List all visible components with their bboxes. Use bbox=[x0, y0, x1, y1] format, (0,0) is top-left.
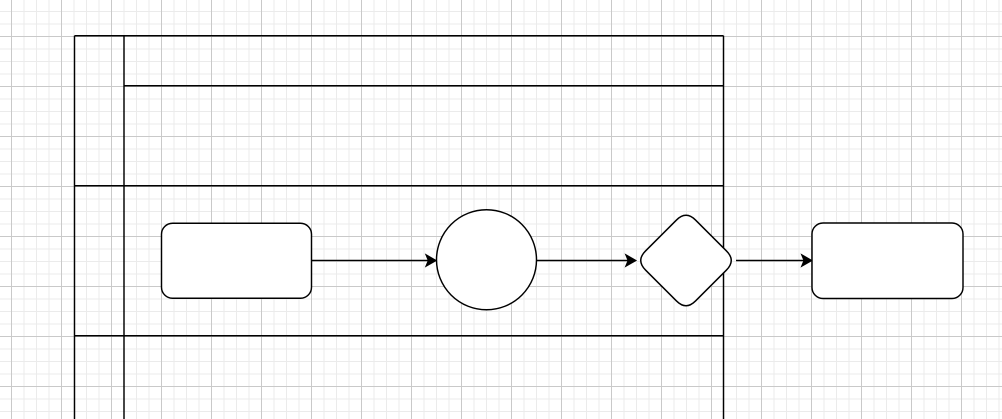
wire: arrow from diamond to task box 2 bbox=[736, 255, 812, 267]
lane boundary y=336 bbox=[75, 335, 724, 337]
pool (swimlane container) outer border bbox=[75, 36, 724, 419]
wire: arrow from circle to diamond bbox=[537, 255, 637, 267]
lane boundary y=186 bbox=[75, 185, 724, 187]
task box 2 (rounded rectangle) bbox=[812, 223, 963, 299]
sub-lane divider y=86 bbox=[124, 85, 724, 87]
wire: arrow from task box 1 to circle bbox=[312, 255, 437, 267]
event circle bbox=[437, 210, 537, 310]
pool header column divider bbox=[123, 36, 125, 419]
decision diamond (rounded) bbox=[641, 215, 731, 305]
task box 1 (rounded rectangle) bbox=[162, 223, 312, 298]
